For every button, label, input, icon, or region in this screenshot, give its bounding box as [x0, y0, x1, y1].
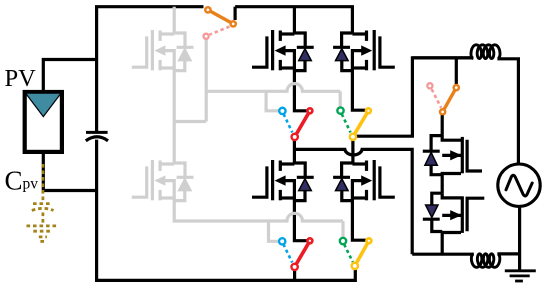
- capacitor Cdc curved bottom plate: [86, 137, 108, 141]
- wire: bottom of right section: [412, 206, 519, 270]
- S5 diode cathode bar: [423, 150, 440, 153]
- MOSFET lower-left (S3): [252, 160, 314, 201]
- switch upper-left cyan dashed throw: [284, 114, 293, 133]
- switch SW1 orange blade: [208, 10, 233, 24]
- wire: upper yellow throw to right section top: [357, 58, 473, 136]
- switch SW2 orange blade: [443, 88, 457, 112]
- wire: gray jog from mid leg to pink-drop vertical: [174, 120, 206, 123]
- switch lower-left red throw ring: [291, 264, 297, 270]
- S6 diode cathode bar: [423, 218, 440, 221]
- MOSFET lower-right (S4): [333, 160, 395, 201]
- switch upper-left red pole ring: [307, 108, 312, 113]
- wire: top rail left segment: [97, 7, 204, 132]
- S6 gate bar and lead: [467, 198, 484, 231]
- wire: upper-left source lead to red pole: [294, 70, 307, 111]
- S5 diode anode connect: [431, 165, 442, 175]
- S6 diode branch: [432, 193, 442, 205]
- wire: lower-right source to lower yellow pole: [352, 200, 366, 240]
- wire: PV positive lead: [43, 60, 96, 92]
- switch SW1 left ring: [205, 7, 210, 12]
- AC source sine: [506, 175, 532, 196]
- switch lower-left red blade: [295, 241, 310, 267]
- switch upper-left red blade: [295, 111, 310, 137]
- wire: drop from rail to orange switch pole: [234, 7, 237, 20]
- S5 drain lead and stub: [442, 115, 461, 140]
- switch upper-right green ring: [337, 107, 343, 113]
- switch SW2 pink dashed throw: [432, 89, 442, 108]
- switch SW2 lower ring: [440, 109, 445, 114]
- wire: upper-left drain lead: [293, 7, 296, 34]
- wire: gray mid leg between gray cells: [173, 70, 176, 164]
- wire: top rail right segment with corner down to upper-right leg: [235, 7, 352, 34]
- MOSFET gray lower (alternative leg): [132, 160, 194, 201]
- wire: upper-right source lead to yellow pole: [352, 70, 366, 110]
- MOSFET stack top (S5): [423, 115, 482, 193]
- S5 gate bar and lead: [467, 140, 482, 171]
- switch lower-left red pole ring: [307, 238, 312, 243]
- switch lower-right green ring: [340, 238, 346, 244]
- PV module triangle: [26, 93, 61, 116]
- S6 source stub and lead: [442, 233, 461, 255]
- wire: vertical from pink throw ring down through jog: [205, 40, 208, 122]
- switch SW1 pink open throw dashes: [210, 27, 230, 35]
- S6 diode triangle: [426, 205, 438, 217]
- wire: gray lower source to link wire with hop: [174, 200, 343, 221]
- wire: red throw down to lower-left drain: [293, 140, 296, 164]
- switch lower-left cyan ring: [279, 238, 285, 244]
- wire: lower-left source lead to lower red pole: [294, 200, 307, 241]
- S6 diode anode connect: [432, 219, 442, 231]
- S6 gate electrode line: [461, 196, 464, 233]
- inductor L2 loops: [471, 254, 499, 267]
- S5 diode triangle: [425, 152, 437, 165]
- wire: right section top to corner and down to AC source: [497, 59, 518, 164]
- wire: lower pair mid rail with hop under yellow leg: [294, 149, 412, 254]
- wire: gray lower drop to green throw: [341, 221, 344, 238]
- S5 body arrow: [450, 150, 461, 160]
- switch lower-right yellow pole ring: [366, 238, 371, 243]
- svg-text:PV: PV: [5, 65, 37, 92]
- inductor L1 top baseline: [412, 56, 473, 59]
- wire: gray upper link wire with hop over black leg: [206, 84, 340, 92]
- wire: PV negative lead down and to left rail: [43, 153, 96, 191]
- inductor L1 loops: [471, 45, 500, 59]
- MOSFET upper-left (S1): [252, 30, 314, 71]
- switch lower-right yellow blade: [355, 241, 369, 266]
- S6 drain lead and stub: [442, 193, 461, 198]
- wire: gray drop to green throw: [339, 91, 342, 107]
- switch lower-right yellow throw ring: [352, 263, 358, 269]
- wire: lower red throw to bottom rail: [293, 270, 296, 280]
- S5 source stub and lead: [442, 174, 461, 194]
- S5 diode branch: [431, 136, 442, 150]
- switch upper-left red throw ring: [292, 134, 298, 140]
- S5 gate electrode line: [461, 137, 464, 173]
- switch lower-right green dashed throw: [344, 244, 353, 262]
- switch SW2 pole ring: [454, 85, 459, 90]
- MOSFET upper-right (S2): [333, 30, 395, 71]
- switch lower-left cyan dashed throw: [283, 244, 292, 262]
- MOSFET gray upper (alternative leg): [132, 30, 194, 71]
- ground: [505, 271, 536, 281]
- svg-text:Cpv: Cpv: [5, 165, 39, 195]
- wire: left rail below capacitor to bottom rail to yellow switch: [97, 140, 356, 281]
- switch SW1 pink ring: [204, 34, 209, 39]
- wire: gray upper drain to top rail: [173, 7, 176, 34]
- MOSFET stack bottom (S6): [423, 193, 485, 254]
- switch upper-right yellow throw ring: [350, 134, 356, 140]
- wire: gray branch down to cyan throw: [266, 91, 279, 111]
- AC source circle: [498, 164, 540, 206]
- switch upper-right yellow blade: [353, 111, 369, 137]
- switch upper-left cyan ring: [279, 108, 285, 114]
- wire: yellow throw down to lower-right drain: [351, 140, 354, 164]
- PV module body: [25, 92, 62, 152]
- S6 body arrow: [450, 210, 461, 220]
- wire: right section top lead down to orange switch 2: [455, 58, 458, 84]
- parasitic capacitance Cpv dashed path to earth: [27, 164, 59, 241]
- S6 body stub: [442, 214, 461, 217]
- switch SW2 pink ring: [427, 83, 432, 88]
- wire: gray lower branch down to cyan throw: [269, 221, 279, 241]
- S5 body stub: [442, 154, 461, 157]
- switch upper-right yellow pole ring: [366, 108, 371, 113]
- switch SW1 right ring: [231, 21, 236, 26]
- capacitor Cdc top plate: [86, 131, 108, 134]
- switch upper-right green dashed throw: [342, 114, 351, 133]
